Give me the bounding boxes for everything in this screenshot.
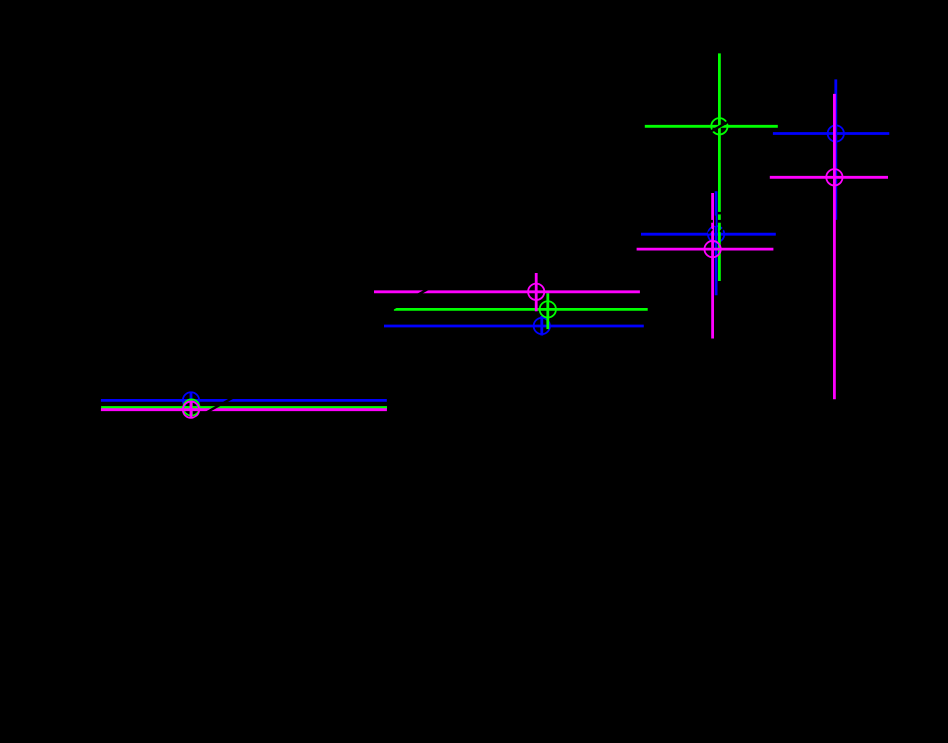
green point 3 x-error bar — [645, 125, 778, 128]
green point 2 y-error bar — [546, 293, 549, 329]
black fit line (invisible on black background, notches the colored bars) — [90, 21, 910, 478]
green point 1 y-error bar — [190, 400, 193, 415]
green point 2 x-error bar — [394, 308, 648, 311]
green circle markers — [183, 118, 727, 416]
blue circle markers — [183, 125, 844, 408]
black arc mark on blue marker 3 upper-right — [720, 227, 725, 232]
magenta point 4 x-error bar — [770, 176, 888, 179]
magenta point 3 y-error bar — [711, 193, 714, 339]
blue point 4 y-error bar — [834, 79, 837, 220]
black arc mark on blue marker 3 upper-left — [708, 229, 712, 233]
blue point 3 y-error bar — [715, 191, 718, 295]
green point 1 x-error bar — [101, 406, 387, 409]
magenta point 1 y-error bar — [190, 401, 193, 418]
magenta point 3 x-error bar — [637, 248, 774, 251]
blue point 2 x-error bar — [384, 325, 644, 328]
notch on green y-error bar (upper) — [718, 212, 722, 215]
green marker 1 — [183, 399, 199, 415]
green point 3 y-error bar — [718, 53, 721, 281]
blue marker 3 — [708, 226, 724, 242]
blue marker 1 — [183, 392, 199, 408]
magenta point 4 y-error bar — [833, 94, 836, 399]
magenta series error bars — [101, 94, 888, 418]
magenta circle markers — [183, 169, 843, 418]
magenta marker 3 — [704, 241, 720, 257]
blue point 2 y-error bar — [540, 316, 543, 336]
magenta marker 1 — [183, 402, 199, 418]
blue point 1 y-error bar — [190, 393, 193, 408]
magenta point 2 y-error bar — [535, 273, 538, 311]
notch on green y-error bar (lower) — [718, 220, 722, 223]
notch on blue y-error bar — [714, 216, 715, 226]
magenta marker 4 — [826, 169, 842, 185]
blue point 1 x-error bar — [101, 399, 387, 402]
blue series error bars — [101, 79, 889, 408]
blue marker 2 — [534, 318, 550, 334]
magenta point 1 x-error bar — [101, 408, 387, 411]
blue point 4 x-error bar — [773, 132, 889, 135]
green series error bars — [101, 53, 778, 415]
blue point 3 x-error bar — [641, 233, 776, 236]
magenta point 2 x-error bar — [374, 290, 640, 293]
green marker 3 — [711, 118, 727, 134]
magenta marker 2 — [528, 284, 544, 300]
green marker 2 — [540, 301, 556, 317]
notch on magenta y-error bar — [711, 220, 713, 223]
blue marker 4 — [828, 125, 844, 141]
black marker notches near (712-721, 212-233) — [711, 212, 721, 226]
